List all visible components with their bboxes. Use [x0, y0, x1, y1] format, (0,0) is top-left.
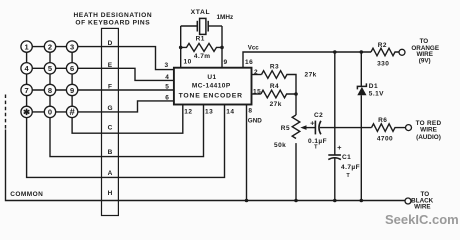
resistor R1: [181, 43, 222, 51]
terminal to red wire: [406, 125, 412, 131]
svg-text:5.1V: 5.1V: [369, 90, 384, 97]
keypad button 8: [44, 84, 55, 95]
wire crystal to right riser: [208, 25, 222, 27]
svg-text:D: D: [108, 40, 113, 47]
svg-text:TO: TO: [420, 38, 429, 45]
wire pin 2 stub: [252, 74, 262, 76]
svg-text:10: 10: [184, 59, 192, 66]
svg-text:HEATH DESIGNATION: HEATH DESIGNATION: [73, 12, 152, 19]
svg-text:16: 16: [245, 59, 253, 66]
wire common rail: [6, 130, 406, 201]
svg-text:13: 13: [205, 109, 213, 116]
diode D1 zener: [357, 83, 366, 95]
svg-text:4: 4: [165, 74, 169, 81]
terminal to black wire: [405, 198, 411, 204]
svg-text:1MHz: 1MHz: [217, 14, 234, 21]
svg-text:SeekIC.com: SeekIC.com: [385, 212, 459, 227]
svg-text:330: 330: [377, 60, 389, 67]
svg-text:GND: GND: [248, 117, 262, 124]
svg-text:#: #: [69, 107, 75, 118]
svg-text:7: 7: [25, 86, 29, 95]
wiper arrow of R5: [300, 125, 315, 130]
keypad button 6: [66, 63, 77, 74]
junction crystal right: [220, 46, 224, 50]
junction C1 rail: [333, 199, 337, 203]
keypad button 2: [44, 41, 55, 52]
svg-text:F: F: [108, 84, 112, 91]
svg-text:TONE ENCODER: TONE ENCODER: [179, 92, 243, 99]
svg-text:0.1µF: 0.1µF: [308, 138, 327, 145]
wire R5 bottom to rail: [295, 143, 297, 200]
junction R5 rail: [294, 199, 298, 203]
svg-text:1: 1: [25, 42, 29, 51]
svg-text:27k: 27k: [305, 71, 317, 78]
svg-text:8: 8: [48, 86, 52, 95]
svg-text:4.7m: 4.7m: [194, 53, 211, 60]
wire pin 9 to crystal loop: [221, 26, 223, 68]
svg-text:8: 8: [248, 107, 252, 114]
resistor R6: [372, 124, 406, 132]
svg-text:OF KEYBOARD PINS: OF KEYBOARD PINS: [75, 19, 150, 26]
svg-text:R4: R4: [270, 83, 279, 90]
keypad button star: [21, 106, 32, 117]
wire keypad row 2 to pin 4: [27, 68, 174, 80]
keypad button 9: [66, 84, 77, 95]
svg-text:E: E: [108, 62, 113, 69]
wire C1 to rail: [334, 158, 336, 201]
capacitor C1: [328, 155, 341, 160]
svg-text:R6: R6: [378, 117, 387, 124]
svg-text:5: 5: [48, 64, 52, 73]
svg-text:R5: R5: [281, 125, 290, 132]
keypad button pound: [66, 106, 77, 118]
svg-text:2: 2: [48, 42, 52, 51]
wire common dashed continuation: [5, 95, 7, 130]
crystal XTAL symbol: [197, 18, 208, 34]
svg-text:27k: 27k: [270, 101, 282, 108]
terminal to orange wire: [399, 49, 405, 55]
svg-text:(9V): (9V): [419, 57, 431, 64]
wire keypad row 3 to pin 5: [27, 89, 174, 91]
svg-text:R1: R1: [196, 35, 205, 42]
connector strip heath keyboard pins: [102, 28, 119, 215]
label to red wire audio: [416, 120, 442, 141]
svg-text:+: +: [337, 143, 342, 152]
svg-text:XTAL: XTAL: [191, 9, 211, 16]
wire Vcc to D1: [360, 52, 362, 86]
wire keypad row 4 to pin 6: [27, 101, 174, 112]
wire keypad column 1 to A row to pin 14: [27, 47, 225, 178]
resistor R2: [371, 48, 399, 56]
capacitor C2: [315, 121, 321, 135]
svg-text:B: B: [108, 149, 113, 156]
svg-text:WIRE: WIRE: [420, 126, 437, 133]
svg-text:C1: C1: [342, 154, 351, 161]
svg-text:(AUDIO): (AUDIO): [416, 134, 441, 141]
pin 8 gnd wire: [246, 105, 248, 201]
svg-text:15: 15: [253, 89, 261, 96]
wire Vcc to C1: [334, 52, 336, 155]
svg-text:9: 9: [224, 59, 228, 66]
resistor R5 potentiometer: [292, 115, 300, 138]
svg-text:14: 14: [226, 109, 234, 116]
svg-text:C: C: [108, 125, 113, 132]
op-amp U1 MC-14410P tone encoder box: [174, 68, 252, 105]
junction Vcc C1: [333, 50, 337, 54]
junction R3 R4: [294, 92, 298, 96]
svg-text:9: 9: [70, 86, 74, 95]
junction Vcc D1: [360, 50, 364, 54]
svg-text:6: 6: [165, 95, 169, 102]
svg-text:R3: R3: [270, 64, 279, 71]
svg-text:2: 2: [254, 69, 258, 76]
svg-text:4.7µF: 4.7µF: [341, 164, 360, 171]
wire crystal top branch: [181, 25, 198, 27]
svg-text:COMMON: COMMON: [10, 191, 43, 198]
svg-text:✱: ✱: [23, 107, 31, 117]
resistor R4: [261, 90, 296, 98]
svg-text:U1: U1: [207, 74, 216, 81]
svg-text:D1: D1: [369, 83, 378, 90]
wire pin 16 to Vcc rail: [243, 52, 371, 68]
svg-text:MC-14410P: MC-14410P: [192, 83, 231, 90]
svg-text:5: 5: [165, 83, 169, 90]
wire keypad column 2 to B row to pin 13: [50, 47, 204, 157]
svg-text:H: H: [108, 190, 113, 197]
junction crystal left: [179, 46, 183, 50]
wire C2 to R6: [320, 127, 372, 129]
svg-text:C2: C2: [314, 112, 323, 119]
svg-text:4700: 4700: [377, 135, 393, 142]
wire keypad column 3 to C row to pin 12: [72, 47, 183, 134]
keypad button 1: [21, 41, 32, 52]
svg-text:6: 6: [70, 64, 74, 73]
svg-text:WIRE: WIRE: [414, 203, 430, 210]
junction D1 rail: [360, 199, 364, 203]
junction pin8 rail: [245, 199, 249, 203]
resistor R3: [262, 71, 297, 94]
wire pin 10 to crystal loop: [180, 26, 182, 68]
keypad button 5: [44, 63, 55, 74]
label to black wire: [411, 191, 433, 210]
svg-text:A: A: [108, 170, 113, 177]
keypad button 7: [21, 84, 32, 95]
svg-text:Vcc: Vcc: [248, 44, 260, 51]
svg-text:+: +: [310, 119, 315, 128]
svg-text:12: 12: [184, 109, 192, 116]
label to orange wire 9V: [411, 38, 439, 65]
svg-text:3: 3: [70, 42, 74, 51]
keypad button 4: [21, 63, 32, 74]
svg-text:50k: 50k: [274, 142, 286, 149]
svg-text:3: 3: [165, 62, 169, 69]
svg-text:R2: R2: [378, 42, 387, 49]
svg-text:0: 0: [48, 108, 52, 117]
label heath designation: [73, 12, 152, 26]
keypad button 0: [44, 106, 55, 117]
wire pin 15 stub: [252, 93, 261, 95]
wire D1 to rail: [360, 95, 362, 200]
wire junction to R5: [295, 94, 297, 115]
keypad button 3: [66, 41, 77, 52]
svg-text:G: G: [107, 105, 113, 112]
wire keypad row 1 to pin 3: [27, 47, 174, 70]
